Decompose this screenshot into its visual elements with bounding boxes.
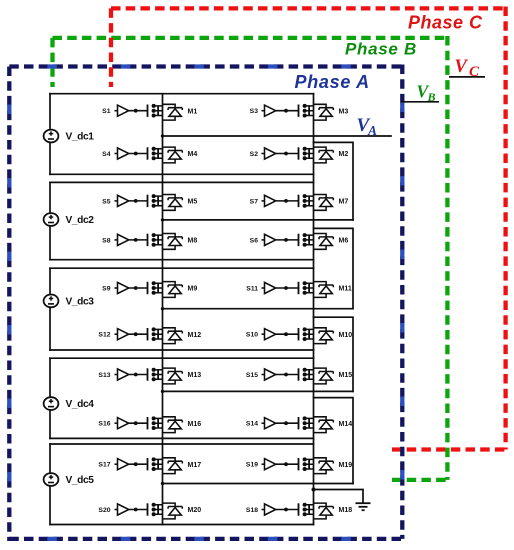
- svg-text:M14: M14: [339, 421, 353, 428]
- svg-text:M5: M5: [188, 199, 198, 206]
- transistor M6 with body diode: [262, 234, 334, 250]
- wire cell 2 mid rail: [163, 219, 354, 221]
- transistor M12 with body diode: [115, 328, 183, 344]
- svg-text:M6: M6: [339, 238, 349, 245]
- transistor M5 with body diode: [115, 195, 183, 211]
- node V_B output tap: [401, 101, 439, 103]
- svg-text:S6: S6: [250, 237, 259, 244]
- transistor M13 with body diode: [115, 368, 183, 384]
- svg-text:M20: M20: [188, 507, 202, 514]
- transistor M19 with body diode: [262, 458, 334, 474]
- svg-text:M2: M2: [339, 151, 349, 158]
- svg-text:S14: S14: [246, 421, 258, 428]
- svg-text:S16: S16: [98, 421, 110, 428]
- Phase A dashed box (navy): [9, 65, 402, 542]
- DC source V_dc3: [44, 295, 59, 308]
- transistor M8 with body diode: [115, 234, 183, 250]
- cell 2 top rail wire: [50, 181, 314, 183]
- transistor M2 with body diode: [262, 147, 334, 163]
- DC source V_dc4: [44, 397, 59, 410]
- wire left leg bus: [162, 94, 164, 525]
- junction dot cell 4 left leg mid: [161, 390, 164, 393]
- cell 3 left edge wire: [49, 268, 51, 350]
- cell 5 left edge wire: [49, 444, 51, 525]
- svg-text:S20: S20: [98, 507, 110, 514]
- cell 4 bottom rail wire: [50, 437, 314, 439]
- svg-text:M12: M12: [188, 332, 202, 339]
- junction dot cell 3 left leg mid: [161, 307, 164, 310]
- cell 2 left edge wire: [49, 182, 51, 259]
- cell 1 left edge wire: [49, 94, 51, 175]
- svg-text:S12: S12: [98, 332, 110, 339]
- transistor M20 with body diode: [115, 503, 183, 519]
- cell 1 bottom rail wire: [50, 173, 314, 175]
- transistor M16 with body diode: [115, 417, 183, 433]
- cell 4 top rail wire: [50, 357, 314, 359]
- svg-text:M13: M13: [188, 372, 202, 379]
- wire link box 3 (cell3-cell4 series connection): [314, 317, 354, 391]
- svg-text:M1: M1: [188, 108, 198, 115]
- svg-text:M4: M4: [188, 151, 198, 158]
- svg-text:M11: M11: [339, 286, 352, 293]
- DC source V_dc1: [44, 130, 59, 143]
- svg-text:S9: S9: [102, 285, 111, 292]
- cell 1 top rail wire: [50, 93, 314, 95]
- svg-text:S1: S1: [102, 108, 111, 115]
- node V_C output tap: [449, 76, 485, 78]
- svg-text:M9: M9: [188, 286, 198, 293]
- svg-text:V_dc3: V_dc3: [66, 297, 95, 308]
- svg-text:V_dc2: V_dc2: [66, 215, 95, 226]
- wire cell 4 mid rail: [163, 390, 354, 392]
- Phase A dashed box bright-dash accents: [9, 65, 402, 542]
- svg-text:S15: S15: [246, 372, 258, 379]
- wire cell 3 mid rail: [163, 308, 354, 310]
- wire link box 1 (cell1-cell2 series connection): [314, 142, 354, 220]
- Phase B dashed box (green): [53, 36, 450, 480]
- transistor M15 with body diode: [262, 368, 334, 384]
- wire right leg bus: [313, 94, 315, 525]
- DC source V_dc2: [44, 213, 59, 226]
- wire cell 1 mid rail / V_A line: [163, 135, 392, 137]
- svg-text:V_dc5: V_dc5: [66, 475, 95, 486]
- svg-text:M17: M17: [188, 462, 202, 469]
- Phase C dashed left stub (red, drawn above navy): [109, 8, 113, 87]
- svg-text:V_dc1: V_dc1: [66, 132, 95, 143]
- svg-text:Phase B: Phase B: [345, 40, 417, 59]
- transistor M7 with body diode: [262, 195, 334, 211]
- ground symbol: [356, 503, 371, 510]
- junction dot cell 1 left leg mid: [161, 134, 164, 137]
- svg-text:S10: S10: [246, 332, 258, 339]
- svg-text:S5: S5: [102, 198, 111, 205]
- transistor M10 with body diode: [262, 328, 334, 344]
- transistor M4 with body diode: [115, 147, 183, 163]
- transistor M17 with body diode: [115, 458, 183, 474]
- svg-text:S11: S11: [246, 285, 258, 292]
- Phase C dashed box (red): [111, 7, 508, 450]
- node V_A output tap label: [357, 115, 378, 138]
- svg-text:S19: S19: [246, 462, 258, 469]
- svg-text:M10: M10: [339, 332, 353, 339]
- junction dot cell 5 left leg mid: [161, 482, 164, 485]
- transistor M9 with body diode: [115, 282, 183, 298]
- svg-text:S3: S3: [250, 108, 259, 115]
- svg-text:Phase C: Phase C: [408, 13, 483, 33]
- junction dot cell 2 left leg mid: [161, 218, 164, 221]
- wire ground branch: [314, 490, 364, 504]
- svg-text:M18: M18: [339, 507, 353, 514]
- svg-text:S2: S2: [250, 151, 259, 158]
- transistor M3 with body diode: [262, 104, 334, 120]
- svg-text:S13: S13: [98, 372, 110, 379]
- svg-text:S17: S17: [98, 462, 110, 469]
- transistor M11 with body diode: [262, 282, 334, 298]
- wire cell 5 mid rail: [163, 483, 354, 485]
- transistor M14 with body diode: [262, 417, 334, 433]
- svg-text:V_dc4: V_dc4: [66, 399, 95, 410]
- wire link box 2 (cell2-cell3 series connection): [314, 228, 354, 308]
- svg-text:M7: M7: [339, 199, 349, 206]
- svg-text:Phase A: Phase A: [295, 72, 370, 92]
- svg-text:S7: S7: [250, 198, 259, 205]
- svg-text:V: V: [455, 57, 469, 77]
- svg-text:M3: M3: [339, 108, 349, 115]
- DC source V_dc5: [44, 473, 59, 486]
- svg-text:M19: M19: [339, 462, 353, 469]
- svg-text:S8: S8: [102, 237, 111, 244]
- svg-text:M15: M15: [339, 372, 353, 379]
- cell 3 bottom rail wire: [50, 349, 314, 351]
- svg-text:M16: M16: [188, 421, 202, 428]
- transistor M18 with body diode: [262, 503, 334, 519]
- svg-text:B: B: [427, 90, 436, 104]
- transistor M1 with body diode: [115, 104, 183, 120]
- cell 3 top rail wire: [50, 267, 314, 269]
- svg-text:S18: S18: [246, 507, 258, 514]
- wire link box 4 (cell4-cell5 series connection): [314, 398, 354, 484]
- cell 5 top rail wire: [50, 443, 314, 445]
- cell 4 left edge wire: [49, 358, 51, 438]
- svg-text:M8: M8: [188, 238, 198, 245]
- cell 5 bottom rail wire: [50, 524, 314, 526]
- cell 2 bottom rail wire: [50, 259, 314, 261]
- junction node dot ground branch: [312, 488, 316, 492]
- svg-text:C: C: [469, 64, 480, 80]
- svg-text:S4: S4: [102, 151, 111, 158]
